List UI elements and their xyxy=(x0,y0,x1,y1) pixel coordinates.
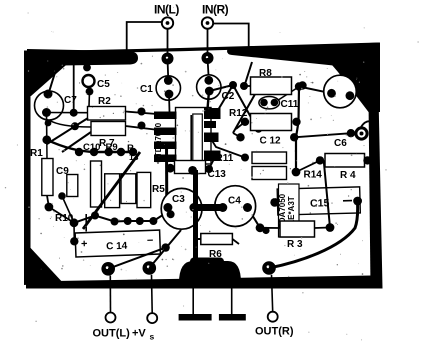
svg-text:R 4: R 4 xyxy=(340,170,356,181)
capacitor C6 xyxy=(356,121,373,139)
power blob heatsink pad xyxy=(179,261,241,283)
wire thick curve R1 to pad row xyxy=(47,140,133,152)
wire C2 to pin8 xyxy=(208,91,210,109)
wire X diagonal 1 xyxy=(233,85,259,131)
svg-text:R11: R11 xyxy=(216,153,234,164)
wire IN(L) drop to board xyxy=(167,29,169,59)
pad C9 bottom xyxy=(58,192,66,200)
svg-text:R14: R14 xyxy=(304,170,323,181)
resistor R4 xyxy=(325,154,365,168)
svg-text:+V: +V xyxy=(132,328,146,340)
wire pin8 up to C2 trace xyxy=(218,85,233,110)
svg-text:R 3: R 3 xyxy=(287,239,303,250)
capacitor C5 xyxy=(83,62,95,95)
resistor R2 xyxy=(88,107,126,121)
capacitor C1 xyxy=(156,76,180,100)
wire R2 left diagonal xyxy=(47,118,88,144)
pad row upper 1 xyxy=(75,148,83,156)
pad C12 left xyxy=(236,133,244,141)
pad input L xyxy=(162,53,174,65)
board corner blob bottom-left xyxy=(26,243,65,285)
wire pad to C1 xyxy=(167,59,170,81)
resistor R12 xyxy=(251,114,292,131)
pad input R xyxy=(202,52,214,64)
op-amp IC U1 TDA7050 xyxy=(176,108,212,165)
pad X junction top xyxy=(229,81,237,89)
wire R7 left diagonal xyxy=(62,132,91,152)
wire lower pad chain xyxy=(74,216,153,223)
svg-text:OUT(R): OUT(R) xyxy=(255,326,294,338)
resistor R6 xyxy=(201,234,233,245)
capacitor C11 xyxy=(259,97,280,109)
wire C7 junction down xyxy=(46,113,48,140)
resistor R1 xyxy=(42,159,53,196)
pad C13 right xyxy=(205,165,213,173)
connector OUT(L) xyxy=(109,276,111,313)
svg-text:C4: C4 xyxy=(228,196,241,207)
wire long diagonal xyxy=(83,152,140,229)
wire C2 bottom diagonal xyxy=(209,85,233,91)
wire R4 left down to R3 right xyxy=(324,160,330,227)
svg-text:+: + xyxy=(81,238,88,250)
wire C5 to R2 junction xyxy=(88,92,91,107)
pad C14 right xyxy=(161,243,169,251)
resistor R14 xyxy=(252,167,287,180)
capacitor C13 xyxy=(175,161,206,174)
wire R6 right stub xyxy=(232,239,239,244)
wire C3 to C4 thick xyxy=(194,204,223,211)
connector OUT(R) xyxy=(272,275,273,312)
IC pin 5 right xyxy=(204,151,221,162)
svg-text:C11: C11 xyxy=(281,99,299,110)
wire R4 right stub xyxy=(365,159,373,161)
pad R4 right xyxy=(363,156,371,164)
pad R1 bottom xyxy=(45,203,54,212)
capacitor C4 xyxy=(215,186,256,227)
pad row lower 5 xyxy=(149,217,157,225)
pad row lower 4 xyxy=(136,217,144,225)
resistor R13 body xyxy=(121,174,136,204)
pad row lower 3 xyxy=(124,217,132,225)
power blob hump xyxy=(190,258,224,267)
wire right vertical bus xyxy=(296,87,299,173)
wire R8 right to Q1 xyxy=(299,87,332,94)
wire C7 to pad upper xyxy=(47,112,88,114)
transistor Q1 xyxy=(324,75,357,108)
board corner blob top-left xyxy=(26,51,82,98)
pad C16 right xyxy=(353,197,362,206)
wire C6 to C12 xyxy=(294,133,351,137)
wire C9 to pad row xyxy=(62,196,74,223)
wire R3 left stub xyxy=(260,227,280,229)
svg-text:C7: C7 xyxy=(64,95,77,106)
svg-text:IN(L): IN(L) xyxy=(154,3,179,17)
IC pin 7 right xyxy=(204,121,216,128)
resistor R3 xyxy=(280,221,315,237)
wire X to C12 left pad xyxy=(233,133,241,137)
pad C13 mid xyxy=(188,166,197,175)
ground bus bar top-left xyxy=(27,49,138,66)
pad R7 right xyxy=(138,122,146,130)
wire C4 to R3 xyxy=(248,208,261,228)
capacitor C3 xyxy=(161,188,202,229)
capacitor C9 xyxy=(67,175,78,197)
pad R3 right xyxy=(326,223,335,232)
pad C7 link upper xyxy=(70,109,78,117)
svg-text:s: s xyxy=(150,332,155,342)
wire C11 to R8 junction xyxy=(274,88,297,103)
wire R1 bottom to R10 pad xyxy=(47,196,74,223)
pad C12 right xyxy=(290,133,298,141)
wire blob to battery right xyxy=(231,284,233,314)
wire X diagonal 2 xyxy=(233,88,259,133)
svg-text:R12: R12 xyxy=(229,108,248,119)
wire pad to C2 xyxy=(208,58,209,80)
capacitor C14 xyxy=(75,230,160,257)
board outline right edge xyxy=(369,96,383,289)
pad OUT(R) board xyxy=(262,261,276,275)
wire +Vs diagonal xyxy=(149,230,181,268)
svg-text:−: − xyxy=(147,235,154,247)
pad R11 left xyxy=(241,154,249,162)
svg-text:R9: R9 xyxy=(106,142,118,153)
wire OUT(L) diagonal xyxy=(108,248,165,269)
IC pin 3 left xyxy=(154,142,177,150)
wire C14 left up xyxy=(73,223,75,242)
capacitor C10 body xyxy=(91,161,102,207)
pad R3 left xyxy=(256,223,265,232)
pad row upper 3 xyxy=(105,148,113,156)
pad R8 right xyxy=(295,82,303,90)
pad pin 3 xyxy=(154,141,162,149)
resistor R8 xyxy=(251,77,292,95)
wire bus to R8 left xyxy=(245,62,252,84)
wire OUT(R) curve to C16 xyxy=(269,205,358,268)
svg-text:C10: C10 xyxy=(83,142,100,153)
svg-text:R1: R1 xyxy=(30,148,43,159)
IC pin 1 left xyxy=(154,112,177,120)
svg-text:+: + xyxy=(153,159,163,164)
pad OUT(L) board xyxy=(101,262,115,276)
wire R14 pad to R4 pad xyxy=(296,160,320,172)
connector pin IN(R) xyxy=(202,17,213,28)
board outline left edge xyxy=(24,51,31,286)
pad C16 left xyxy=(270,198,279,207)
wire pads to C3 xyxy=(153,209,168,222)
resistor R7 xyxy=(91,122,126,136)
pad C13 left xyxy=(166,164,175,173)
svg-text:C13: C13 xyxy=(208,169,227,180)
wire C1 bottom to pin1 xyxy=(168,94,171,112)
pad X diag lower xyxy=(255,125,263,133)
IC pin 6 right xyxy=(204,133,219,143)
svg-text:C 12: C 12 xyxy=(260,136,282,147)
pad R10 xyxy=(70,218,79,227)
svg-text:OUT(L): OUT(L) xyxy=(93,328,131,340)
IC pin 8 right xyxy=(204,108,221,119)
pad R12 left xyxy=(241,118,249,126)
board outline bottom edge xyxy=(26,276,383,289)
pad R14 right xyxy=(292,168,301,177)
wire vertical pin area to C3 xyxy=(165,144,168,208)
wire pin6 to R11 pad xyxy=(211,139,245,158)
capacitor C2 xyxy=(197,75,221,99)
pad R2 right xyxy=(138,108,146,116)
svg-text:IN(R): IN(R) xyxy=(202,3,229,17)
capacitor C7 xyxy=(35,90,64,121)
pad X right top xyxy=(255,84,263,92)
wire C7 arc to pad lower xyxy=(49,120,91,127)
pad Q1 link xyxy=(298,81,306,89)
wire R1 top stub xyxy=(46,140,48,159)
resistor R11 xyxy=(252,152,287,164)
pad C7 link lower xyxy=(71,122,79,130)
IC type rotated print TDA7050 xyxy=(278,184,299,237)
wire IN(L) shield bracket xyxy=(127,22,162,53)
battery bar right xyxy=(219,314,246,321)
pad +Vs board xyxy=(143,261,157,275)
svg-text:C 14: C 14 xyxy=(106,241,128,253)
wire R6 left stub xyxy=(196,238,201,240)
svg-text:C6: C6 xyxy=(334,138,347,149)
board corner blob top-right xyxy=(326,43,380,113)
pad row lower 1 xyxy=(91,212,99,220)
board outline top edge xyxy=(26,43,379,55)
ground bus bar top-right xyxy=(227,46,338,66)
pad row upper 5 xyxy=(129,148,137,156)
pad pin 4 xyxy=(154,154,162,162)
wire IN(R) shield bracket xyxy=(213,24,249,51)
pad R4 left xyxy=(316,156,324,164)
IC pin 4 left xyxy=(154,155,177,163)
connector pin IN(L) xyxy=(162,17,173,28)
pad R8 left xyxy=(240,82,248,90)
pad junction left xyxy=(45,120,52,127)
wire vertical x86 xyxy=(85,214,87,232)
IC pin 2 left xyxy=(154,128,177,136)
pad R1 top xyxy=(42,135,51,144)
wire R2 to IC pin1 xyxy=(126,112,164,115)
wire bus down to pad upper xyxy=(73,63,75,113)
pad R3 left aux xyxy=(262,227,269,234)
wire bus to C7 xyxy=(49,63,58,92)
svg-text:R2: R2 xyxy=(98,96,111,107)
wire blob to battery left xyxy=(192,284,194,314)
svg-text:R5: R5 xyxy=(152,184,165,195)
wire IC bottom vertical thick xyxy=(193,170,198,262)
connector +Vs xyxy=(151,275,154,313)
pad row upper 2 xyxy=(90,148,98,156)
pad C6 left xyxy=(347,129,355,137)
wire R3 right stub xyxy=(315,227,331,230)
svg-text:C5: C5 xyxy=(97,79,110,90)
resistor R5 body xyxy=(137,172,151,207)
pad C14 left xyxy=(70,237,78,245)
wire IN(R) drop to board xyxy=(207,29,209,59)
pad bus mid xyxy=(292,118,300,126)
wire R12 left stub xyxy=(236,122,245,129)
pad row lower 2 xyxy=(111,218,119,226)
wire R8 left stub xyxy=(244,85,251,87)
resistor R9 body xyxy=(105,174,120,208)
svg-text:C3: C3 xyxy=(172,194,185,205)
pad row upper 4 xyxy=(117,148,125,156)
wire pin5 to C13 right pad xyxy=(209,156,218,169)
wire R7 to IC pin2 xyxy=(126,126,164,131)
battery bar left xyxy=(179,314,212,321)
capacitor C16 xyxy=(277,187,360,215)
